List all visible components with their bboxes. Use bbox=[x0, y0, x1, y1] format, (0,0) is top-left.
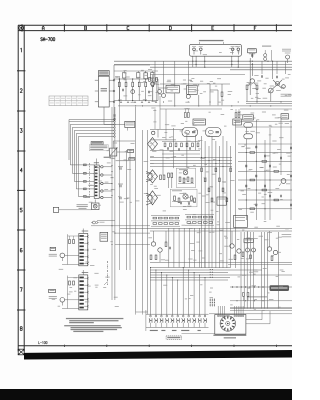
registration mark top-left bbox=[19, 26, 24, 31]
wire bus line 4 partial bbox=[230, 69, 292, 71]
transistor Q relay driver bbox=[248, 79, 257, 86]
resistor capacitor pair AM ant bbox=[68, 276, 79, 309]
capacitor C601 bbox=[192, 46, 196, 54]
component value labels FM IF area bbox=[115, 69, 159, 103]
capacitor tuner output bbox=[252, 53, 253, 59]
capacitor pair below front end bbox=[114, 114, 115, 120]
wire verticals above harness bbox=[169, 228, 205, 268]
wire strip to remote link bbox=[182, 332, 215, 334]
relay contact right K4 bbox=[244, 134, 253, 139]
border frame top band bbox=[18, 25, 292, 30]
transistor small above bridge bbox=[152, 131, 155, 134]
label volume lamp note bbox=[77, 204, 88, 208]
ticks on bottom line bbox=[64, 345, 276, 347]
volume control left pin wires with pads bbox=[70, 164, 94, 197]
filter box B4 bbox=[281, 114, 289, 119]
plug connector below lamp bbox=[91, 221, 105, 224]
wire center vertical bundle bbox=[202, 136, 231, 268]
protection network cluster right bbox=[185, 215, 214, 226]
junction dots right grid bbox=[246, 152, 271, 209]
junction dots middle bus bbox=[135, 101, 282, 106]
transistor FM RF Q2 bbox=[158, 90, 162, 94]
border frame bottom line bbox=[18, 345, 292, 347]
diode pair D13 D14 bbox=[118, 184, 123, 187]
wire meter rails bbox=[246, 93, 292, 104]
component value labels mid bus boxes bbox=[151, 108, 289, 128]
resistor row center upper bbox=[162, 142, 200, 155]
label box AM ant bbox=[49, 289, 57, 298]
label relay drive bbox=[281, 94, 292, 97]
bridge rectifier D1 bbox=[148, 138, 158, 151]
ceramic filter box B7 bbox=[233, 119, 242, 125]
power supply box right bbox=[234, 215, 248, 227]
wire IF output segments bbox=[114, 71, 168, 101]
wire regulator rails extra bbox=[230, 308, 292, 311]
transistor mid 1 bbox=[162, 84, 166, 98]
AM bar tap arrows bbox=[84, 277, 88, 307]
power transistor cluster right bbox=[267, 231, 277, 261]
component value labels center grid bbox=[150, 130, 235, 215]
junction dots on regulator rail bbox=[232, 286, 264, 287]
remote control PC board outline bbox=[215, 315, 246, 335]
capacitor lamp filter bbox=[53, 207, 58, 212]
row numbers 1-8 bbox=[20, 48, 22, 330]
wire AM bar top pin bbox=[82, 270, 84, 275]
drawing number L-100 bbox=[39, 341, 48, 343]
wire bundle down to connector area bbox=[136, 312, 148, 315]
FM tuning coil striped bar T1 bbox=[79, 234, 88, 266]
dial cord dash-dot line bbox=[104, 261, 108, 285]
bridge rectifier D2 bbox=[148, 170, 158, 183]
wire bus drops left section bbox=[155, 61, 188, 84]
wire FM bar bottom bbox=[62, 264, 79, 266]
wire drops from signal board bbox=[193, 56, 238, 67]
component value labels right grid bbox=[239, 131, 292, 213]
mechanical link dashed line volume bbox=[89, 163, 91, 198]
component value labels left mid bbox=[85, 143, 149, 206]
component value labels tuner right bbox=[247, 74, 293, 99]
connector strip bottom rail bbox=[146, 326, 209, 328]
row ticks on left band bbox=[17, 71, 25, 310]
small parts below regulator rail bbox=[243, 293, 249, 301]
label bal adj bbox=[262, 46, 271, 47]
AM FM signal PC board outline bbox=[190, 44, 242, 56]
capacitor C603 bbox=[231, 46, 235, 54]
relay contact unit K1 bbox=[182, 128, 198, 137]
resistor RF stage 6 bbox=[152, 79, 154, 101]
model label SA-700 bbox=[41, 38, 55, 41]
remote control rotary switch dial bbox=[220, 316, 235, 331]
wire remote board feeds from above bbox=[218, 306, 243, 315]
diode pair D11 D12 bbox=[118, 167, 123, 170]
column letters A-F bbox=[42, 26, 256, 30]
junction dots on bus bbox=[192, 61, 273, 68]
wire FM RF rail top bbox=[114, 78, 158, 80]
wire top bus from front end bbox=[114, 64, 150, 66]
wire right horizontal taps bbox=[236, 122, 292, 209]
label muting filter bbox=[116, 159, 129, 162]
junction dots RF rail bbox=[119, 78, 147, 101]
resistor capacitor pair FM ant bbox=[68, 234, 79, 264]
transistor mid 2 bbox=[186, 84, 190, 99]
wire long vertical x119 bbox=[119, 102, 121, 270]
label AM FM SIGNAL PC BOARD bbox=[199, 40, 224, 44]
junction dots center bbox=[201, 157, 224, 167]
wire vertical right of front end bbox=[119, 76, 121, 102]
power transistor cluster mid-right bbox=[230, 231, 256, 260]
driver block box 2 bbox=[170, 189, 197, 207]
wire FM bar top pin bbox=[82, 229, 84, 234]
test point box TP bbox=[128, 150, 134, 153]
ceramic filter box B5 bbox=[193, 119, 206, 125]
wire lamp connections bbox=[59, 200, 96, 210]
transistor right Q10 bbox=[279, 179, 286, 186]
wire tuning cap connections bbox=[113, 141, 135, 152]
transistor FM RF Q1 bbox=[131, 90, 135, 94]
capacitor C602 bbox=[199, 46, 203, 54]
ground stubs under RF rail bbox=[120, 101, 157, 103]
component value labels am fm bars bbox=[52, 231, 119, 307]
connector strip labels bbox=[150, 330, 201, 331]
wire nested channel horizontals bbox=[69, 119, 115, 138]
registration mark bottom-left bbox=[18, 349, 25, 355]
note text block bbox=[64, 318, 123, 332]
resistor RF stage 2 bbox=[125, 79, 127, 101]
resistor pair under bus left bbox=[184, 109, 189, 118]
resistor relay emitter bbox=[256, 85, 258, 95]
TUNER label box bbox=[248, 49, 257, 55]
signal meter M1 bbox=[268, 88, 273, 93]
label AC TRK bbox=[104, 157, 111, 158]
component value labels power section bbox=[148, 221, 288, 261]
resistor mid bias bbox=[221, 84, 223, 105]
volume control VR tall striped body bbox=[94, 165, 99, 198]
thick black bar above footer bbox=[24, 350, 292, 360]
wire mid-block connections bbox=[160, 84, 230, 105]
remote board terminal circles bbox=[217, 315, 243, 317]
wire harness drops to connector bbox=[150, 267, 206, 315]
volume lamp box with lamp bbox=[92, 203, 100, 210]
resistor RF stage 5 bbox=[145, 79, 147, 101]
component value labels signal board bbox=[195, 46, 239, 55]
voltage table bbox=[49, 96, 88, 106]
junction dot matrix bbox=[210, 299, 215, 307]
wire right-top drops bbox=[261, 61, 285, 78]
relay contact right K3 bbox=[244, 123, 253, 128]
diode pair D15 D16 bbox=[119, 197, 121, 200]
label speaker terminals bbox=[282, 234, 292, 237]
wire right verticals bbox=[236, 119, 291, 268]
label remote control PC board bbox=[213, 335, 246, 339]
capacitor C604 bbox=[236, 46, 240, 54]
component value labels top middle bbox=[152, 78, 233, 103]
component box lower bundle bbox=[217, 197, 226, 205]
muting block 2 bbox=[187, 85, 198, 94]
resistor RF stage 3 bbox=[132, 79, 134, 101]
resistor pair center bbox=[168, 173, 173, 188]
wire bus line 3 bbox=[150, 66, 292, 68]
capacitor input right edge bbox=[285, 53, 291, 63]
wire center verticals upper bbox=[155, 96, 196, 175]
wire center horizontals bbox=[150, 130, 232, 167]
connector label plate dashed bbox=[166, 336, 181, 339]
capacitors center upper bbox=[167, 147, 190, 151]
volume control right taps with terminals bbox=[99, 166, 112, 199]
regulator dark label box bbox=[270, 285, 290, 291]
MPX filter box bbox=[125, 121, 135, 130]
component value labels lower right bbox=[230, 268, 285, 311]
wire regulator rail 1 bbox=[230, 286, 292, 288]
wire lower power rails bbox=[150, 262, 292, 264]
label balance control bbox=[282, 49, 291, 52]
relay contact unit K2 bbox=[206, 128, 222, 137]
wire regulator rail 2 bbox=[230, 308, 292, 310]
bridge rectifier D3 bbox=[148, 191, 158, 205]
AM tuning coil striped bar T2 bbox=[79, 275, 88, 310]
component value labels harness area bbox=[163, 284, 213, 299]
transistor left IF cluster bbox=[149, 75, 158, 102]
label FM coil bbox=[82, 231, 89, 232]
note box dial stringing bbox=[89, 145, 108, 151]
label above volume control bbox=[94, 162, 99, 163]
variable capacitor tuning gang bbox=[109, 147, 117, 156]
resistor RF stage 4 bbox=[138, 79, 140, 101]
headphone jack symbol 1 bbox=[146, 172, 152, 182]
label AM coil bbox=[82, 272, 89, 273]
wire remote board right connections bbox=[246, 311, 270, 324]
wire vertical feed at B-C bbox=[113, 65, 115, 121]
wire bus line 2 bbox=[114, 63, 292, 65]
resistor trio center-left bbox=[160, 175, 165, 180]
FM bar tap arrows bbox=[84, 235, 88, 264]
wire long vertical bundle B bbox=[112, 107, 148, 312]
junction dot matrix upper bbox=[210, 269, 213, 278]
FM antenna terminal label box bbox=[98, 71, 109, 76]
wire nested channel verticals bbox=[69, 120, 78, 197]
wire FM front end pins bbox=[95, 79, 115, 102]
antenna trimmer circle 1 bbox=[60, 253, 79, 261]
capacitor RF bypass bbox=[147, 91, 149, 94]
bottom black band bbox=[0, 389, 292, 400]
protection network cluster left bbox=[151, 216, 180, 227]
resistor relay base bbox=[246, 85, 248, 95]
resistor pair under bus right bbox=[235, 109, 240, 118]
wire vertical right top bbox=[271, 50, 273, 61]
FM front end block bbox=[98, 76, 109, 107]
resistor box trimmer bbox=[129, 158, 135, 160]
wire harness horizontal bundle bbox=[150, 268, 292, 281]
junction dots bundle B bbox=[111, 165, 112, 196]
wire rail y313 bbox=[209, 313, 292, 315]
wire FM RF rail bottom bbox=[114, 100, 158, 102]
label box power feed bbox=[100, 232, 108, 241]
note header box dial cord bbox=[91, 142, 103, 145]
transistor Q meter amp bbox=[273, 80, 282, 89]
wire rail y300 bbox=[230, 300, 292, 301]
wire vertical tuner drops bbox=[250, 58, 272, 95]
bias network left bbox=[165, 231, 171, 249]
wire upper-left power connections bbox=[91, 220, 150, 245]
wire AM bar bottom bbox=[62, 308, 79, 310]
muting block 1 bbox=[166, 85, 179, 93]
resistor RF stage 1 bbox=[118, 79, 120, 101]
wire sub-bus line bbox=[150, 74, 245, 76]
wire middle bus line 2 bbox=[118, 105, 292, 107]
capacitor RF coupling bbox=[121, 89, 123, 92]
filter box B3 bbox=[243, 115, 254, 120]
coil RF tank bbox=[144, 71, 148, 79]
capacitors on right verticals bbox=[246, 146, 292, 207]
wire power section rails bbox=[120, 229, 292, 231]
wire right lower verticals bbox=[241, 232, 278, 309]
wire strip left vertical bbox=[145, 310, 147, 331]
transistor Q meter amp 2 bbox=[282, 85, 286, 89]
border frame left band bbox=[18, 25, 24, 351]
connector strip pin pairs bbox=[149, 315, 207, 327]
capacitor bal pair bbox=[264, 50, 267, 61]
power transformer label box bbox=[244, 239, 253, 243]
resistors on right taps bbox=[250, 152, 279, 210]
component marks on vertical bundle bbox=[201, 168, 232, 202]
wire volume top pin bbox=[96, 159, 98, 166]
label amp PC board bbox=[247, 295, 267, 298]
column ticks on top band bbox=[22, 24, 276, 31]
headphone jack symbol 2 bbox=[146, 193, 152, 205]
wire front end to MPX box bbox=[104, 107, 125, 124]
driver block box 1 bbox=[176, 168, 195, 187]
power transistor cluster left bbox=[150, 231, 162, 262]
connector strip top rail bbox=[146, 313, 209, 315]
wire middle bus partial segments bbox=[160, 108, 292, 110]
label box FM ant bbox=[49, 247, 57, 256]
wire bus line 1 bbox=[114, 60, 292, 62]
IF transformer cans bbox=[123, 71, 154, 78]
antenna trimmer circle 2 bbox=[60, 298, 79, 306]
